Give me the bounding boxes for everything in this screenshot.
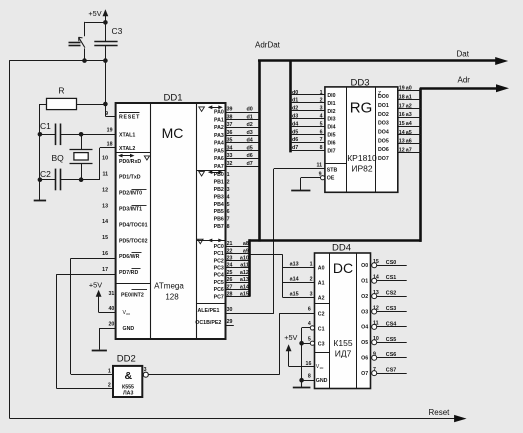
crystal BQ [52, 134, 93, 179]
+5V supply at DD4 Vcc [284, 333, 314, 366]
wire bottom reset rail (horizontal) [10, 418, 455, 420]
DD1 pin PA0 (pin 39, d0) [214, 107, 258, 116]
svg-text:PC5: PC5 [214, 280, 224, 286]
svg-text:PA7: PA7 [214, 164, 224, 170]
DD1 pin PD1 label [102, 172, 140, 181]
svg-text:d2: d2 [247, 122, 253, 128]
wire left reset rail (vertical) [9, 60, 11, 419]
svg-text:PD2/INT0: PD2/INT0 [119, 191, 142, 197]
svg-text:d0: d0 [292, 90, 298, 96]
svg-text:A0: A0 [318, 266, 325, 272]
svg-text:11: 11 [316, 162, 322, 168]
DD1 PB section marks [199, 170, 223, 176]
DD1 pin RESET label [105, 111, 140, 120]
svg-text:DI2: DI2 [327, 109, 335, 115]
DD4 pin O6 (pin 9, CS6) with bubble [361, 352, 407, 362]
+5V supply symbol [88, 9, 108, 23]
DD1 pin PA4 (pin 35, d4) [214, 138, 258, 147]
svg-text:13: 13 [102, 203, 108, 209]
svg-text:PB4: PB4 [214, 202, 224, 208]
DD1 pin PA7 (pin 32, d7) [214, 161, 258, 170]
node C1/BQ/XTAL1 [79, 132, 84, 137]
DD3 pin DI6 (pin 7, d6) [291, 137, 336, 146]
svg-text:PD1/TxD: PD1/TxD [119, 175, 141, 181]
svg-text:10: 10 [373, 336, 379, 342]
svg-text:21: 21 [227, 241, 233, 247]
DD1 pin PC4 (pin 25, a12) [214, 270, 250, 279]
svg-text:PD4/TOC01: PD4/TOC01 [119, 222, 148, 228]
DD1 pin PC7 (pin 28, a15) [214, 292, 250, 301]
DD1 pin Vcc label [108, 306, 130, 316]
DD4 pin C3 (pin 5) with bubble [302, 336, 325, 347]
svg-text:PC2: PC2 [214, 258, 224, 264]
svg-text:6: 6 [320, 129, 323, 135]
wire PD7/RD to DD2 input 2 [56, 274, 115, 388]
svg-text:16: 16 [306, 361, 312, 367]
svg-text:4: 4 [320, 114, 323, 120]
DD1 pin PC0 (pin 21, a8) [214, 241, 250, 250]
DD4 pin O2 (pin 13, CS2) with bubble [361, 290, 407, 300]
DD3 pin DI5 (pin 6, d5) [291, 129, 336, 138]
DD1 pin PA3 (pin 36, d3) [214, 130, 258, 139]
wire DD1 GND to ground [99, 328, 115, 349]
svg-text:a7: a7 [406, 147, 412, 153]
svg-text:d6: d6 [247, 153, 253, 159]
DD3 pin DI1 (pin 2, d1) [291, 98, 336, 107]
+5V supply at DD1 Vcc [89, 280, 116, 312]
svg-text:OE: OE [327, 176, 335, 182]
svg-text:A1: A1 [318, 281, 325, 287]
svg-text:d0: d0 [247, 107, 253, 113]
svg-text:34: 34 [227, 145, 233, 151]
wire +5V node down to resistor node [105, 61, 107, 104]
DD2 input pin 1 [71, 368, 113, 374]
svg-text:CS1: CS1 [386, 275, 397, 281]
capacitor C2 [40, 169, 81, 191]
svg-text:a11: a11 [240, 263, 249, 269]
DD3 pin DI7 (pin 8, d7) [291, 145, 336, 154]
DD4 pin O1 (pin 14, CS1) with bubble [361, 275, 407, 285]
svg-text:31: 31 [108, 291, 114, 297]
svg-text:13: 13 [399, 139, 405, 145]
svg-text:d4: d4 [292, 121, 298, 127]
svg-text:19: 19 [107, 128, 113, 134]
svg-text:24: 24 [227, 263, 233, 269]
svg-text:cc: cc [320, 366, 324, 370]
svg-text:d4: d4 [247, 138, 253, 144]
svg-text:PB2: PB2 [214, 187, 224, 193]
DD1 pin XTAL1 label [107, 128, 136, 139]
DD1 pin PC5 (pin 26, a13) [214, 277, 250, 286]
DD4 pin Vcc label [306, 361, 324, 370]
svg-text:9: 9 [105, 111, 108, 117]
bus AdrDat (AD0-AD7 vertical) [255, 41, 281, 242]
svg-text:11: 11 [102, 172, 108, 178]
DD3 pin DO0 (pin 19, a0) [378, 86, 421, 101]
svg-text:1: 1 [310, 262, 313, 268]
DD4 pin GND label [302, 373, 328, 384]
svg-text:DD2: DD2 [117, 353, 136, 364]
svg-text:DI7: DI7 [327, 148, 335, 154]
svg-text:35: 35 [227, 138, 233, 144]
svg-text:3: 3 [310, 292, 313, 298]
svg-text:2: 2 [310, 277, 313, 283]
wire left C-rail (vertical) [39, 104, 41, 200]
svg-text:PD3/INT1: PD3/INT1 [119, 207, 142, 213]
svg-text:d3: d3 [247, 130, 253, 136]
svg-text:1: 1 [108, 368, 111, 374]
DD3 pin DI4 (pin 5, d4) [291, 121, 336, 130]
svg-text:К555: К555 [122, 384, 134, 390]
svg-text:d2: d2 [292, 106, 298, 112]
DD3 pin STB [316, 162, 337, 173]
svg-text:DI4: DI4 [327, 125, 335, 131]
svg-text:Reset: Reset [429, 408, 451, 417]
svg-text:14: 14 [102, 219, 108, 225]
svg-text:a13: a13 [290, 262, 299, 268]
ground (DD1 GND) [99, 348, 101, 351]
svg-text:DD4: DD4 [332, 242, 351, 253]
svg-text:PB0: PB0 [214, 172, 224, 178]
svg-text:PB6: PB6 [214, 217, 224, 223]
svg-text:14: 14 [373, 275, 379, 281]
svg-text:CS2: CS2 [386, 291, 397, 297]
svg-text:PB7: PB7 [214, 224, 224, 230]
svg-text:PC1: PC1 [214, 251, 224, 257]
svg-text:13: 13 [373, 290, 379, 296]
wire a13-a15 feeder from address bus [250, 255, 283, 298]
node C2 left [38, 177, 43, 182]
svg-text:20: 20 [108, 322, 114, 328]
svg-text:22: 22 [227, 248, 233, 254]
svg-text:A2: A2 [318, 296, 325, 302]
svg-text:7: 7 [227, 217, 230, 223]
svg-text:ALE/PE1: ALE/PE1 [198, 308, 220, 314]
wire to XTAL1 pin 19 [81, 134, 116, 136]
svg-text:d1: d1 [292, 98, 298, 104]
svg-text:30: 30 [227, 307, 233, 313]
svg-text:DO2: DO2 [378, 112, 389, 118]
DD4 pin O4 (pin 11, CS4) with bubble [361, 321, 407, 331]
svg-text:DI5: DI5 [327, 133, 335, 139]
node +5V/C3 top [103, 20, 108, 25]
wire PD6/WR to DD2 input 1 [71, 258, 116, 374]
DD1 PC section marks [198, 239, 223, 244]
DD4 pin O5 (pin 10, CS5) with bubble [361, 336, 407, 346]
svg-text:a14: a14 [290, 277, 299, 283]
DD2 output pin 3 with bubble, wire to DD4 C2 [143, 367, 279, 377]
svg-text:PA6: PA6 [214, 156, 224, 162]
svg-text:PA4: PA4 [214, 141, 224, 147]
DD3 pin DO7 (pin 12, a7) [378, 147, 421, 162]
DD3 pin DI2 (pin 3, d2) [291, 106, 336, 115]
svg-text:d7: d7 [292, 145, 298, 151]
DD3 pin DO6 (pin 13, a6) [378, 139, 421, 154]
DD3 pin DI0 (pin 1, d0) [291, 90, 336, 99]
DD4 pin O0 (pin 15, CS0) with bubble [361, 259, 407, 269]
svg-text:25: 25 [227, 270, 233, 276]
DD3 pin DO5 (pin 14, a5) [378, 130, 421, 145]
svg-text:17: 17 [102, 267, 108, 273]
svg-text:PB1: PB1 [214, 180, 224, 186]
DD3 pin DI3 (pin 4, d3) [291, 114, 336, 123]
DD1 PD0 bidirectional mark [118, 154, 150, 160]
DD3 pin DO4 (pin 15, a4) [378, 121, 421, 136]
DD1 pin PA1 (pin 38, d1) [214, 114, 258, 123]
ground (DD3 OE) [291, 190, 310, 192]
svg-text:DI3: DI3 [327, 117, 335, 123]
svg-text:DC: DC [333, 260, 353, 276]
svg-text:26: 26 [227, 277, 233, 283]
svg-text:PB3: PB3 [214, 194, 224, 200]
svg-text:К155: К155 [333, 338, 352, 348]
DD1 pin PA2 (pin 37, d2) [214, 122, 258, 131]
svg-text:a15: a15 [240, 292, 249, 298]
DD2 input pin 2 [56, 383, 113, 389]
svg-text:15: 15 [373, 259, 379, 265]
capacitor C3 [94, 22, 122, 60]
svg-text:DO0: DO0 [378, 94, 389, 100]
svg-text:DD1: DD1 [164, 93, 183, 104]
wire C1/C3 to ground rail [301, 328, 303, 380]
svg-text:1: 1 [320, 90, 323, 96]
svg-text:PC3: PC3 [214, 266, 224, 272]
DD1 pin PB0 (pin 1) [214, 172, 230, 178]
svg-text:O0: O0 [361, 263, 368, 269]
svg-text:3: 3 [144, 367, 147, 373]
svg-text:40: 40 [108, 306, 114, 312]
resistor R [40, 86, 106, 110]
DD4 pin O7 (pin 7, CS7) with bubble [361, 367, 407, 377]
bus A8-A15 (PC vertical) [248, 239, 251, 296]
svg-text:C1: C1 [318, 326, 325, 332]
svg-text:2: 2 [320, 98, 323, 104]
DD1 pin XTAL2 label [107, 141, 136, 152]
svg-text:C3: C3 [318, 341, 325, 347]
svg-text:a12: a12 [240, 270, 249, 276]
svg-text:36: 36 [227, 130, 233, 136]
node C3/ground rail [299, 341, 304, 346]
svg-text:DI6: DI6 [327, 140, 335, 146]
wire top rail to left reset rail [10, 60, 106, 62]
svg-text:a1: a1 [406, 94, 412, 100]
svg-text:XTAL1: XTAL1 [119, 132, 135, 138]
wire node to RESET pin 9 [105, 104, 115, 117]
svg-text:O5: O5 [361, 340, 368, 346]
capacitor C1 [40, 121, 81, 145]
DD1 pin PB3 (pin 4) [214, 194, 230, 200]
DD3 pin DO2 (pin 17, a2) [378, 103, 421, 118]
DD1 pin PA6 (pin 33, d6) [214, 153, 258, 162]
DD1 pin GND label [108, 322, 134, 332]
svg-text:29: 29 [227, 319, 233, 325]
svg-text:C3: C3 [112, 26, 123, 36]
svg-text:+5V: +5V [89, 280, 102, 289]
svg-text:15: 15 [102, 235, 108, 241]
svg-text:PE0/INT2: PE0/INT2 [121, 293, 144, 299]
DD3 pin DO1 (pin 18, a1) [378, 94, 421, 109]
node C2/BQ bottom [79, 177, 84, 182]
svg-text:11: 11 [373, 321, 379, 327]
DD4 pin C1 (pin 4) with bubble [302, 321, 325, 333]
svg-text:cc: cc [126, 312, 130, 316]
svg-text:O6: O6 [361, 356, 368, 362]
svg-text:d7: d7 [247, 161, 253, 167]
svg-text:a10: a10 [240, 256, 249, 262]
svg-text:DO4: DO4 [378, 129, 389, 135]
svg-text:d5: d5 [292, 129, 298, 135]
svg-text:GND: GND [316, 378, 328, 384]
svg-text:ИР82: ИР82 [351, 164, 373, 174]
svg-text:O2: O2 [361, 294, 368, 300]
svg-text:PA3: PA3 [214, 133, 224, 139]
wire BQ bottom to XTAL2 pin 18 [81, 148, 116, 180]
svg-text:MC: MC [162, 125, 184, 141]
svg-text:32: 32 [227, 161, 233, 167]
svg-text:16: 16 [399, 112, 405, 118]
svg-text:28: 28 [227, 292, 233, 298]
svg-text:CS7: CS7 [386, 368, 397, 374]
svg-text:PA2: PA2 [214, 125, 224, 131]
svg-text:PA5: PA5 [214, 148, 224, 154]
DD1 pin PB4 (pin 5) [214, 202, 230, 208]
register DD3 KR1810IR82 body [325, 77, 398, 192]
DD1 pin PB7 (pin 8) [214, 224, 230, 230]
svg-text:DI1: DI1 [327, 101, 335, 107]
svg-text:2: 2 [227, 180, 230, 186]
svg-text:PD7/RD: PD7/RD [119, 270, 138, 276]
microcontroller DD1 ATmega128 body [116, 93, 226, 340]
svg-text:DO6: DO6 [378, 147, 389, 153]
svg-text:PC4: PC4 [214, 273, 224, 279]
svg-text:+5V: +5V [284, 333, 297, 342]
svg-text:18: 18 [399, 94, 405, 100]
svg-text:PC7: PC7 [214, 294, 224, 300]
svg-text:O3: O3 [361, 309, 368, 315]
bus address horizontal (to Adr) [249, 239, 422, 242]
svg-text:PB5: PB5 [214, 209, 224, 215]
svg-text:17: 17 [399, 103, 405, 109]
svg-text:a2: a2 [406, 103, 412, 109]
decoder DD4 K155ID7 body [315, 242, 371, 388]
ground (DD4) [301, 380, 303, 387]
svg-text:a15: a15 [290, 292, 299, 298]
svg-text:DO5: DO5 [378, 138, 389, 144]
DD1 pin PA5 (pin 34, d5) [214, 145, 258, 154]
DD1 pin PD7 label [102, 267, 140, 276]
svg-text:128: 128 [165, 293, 179, 302]
svg-text:7: 7 [373, 367, 376, 373]
svg-text:16: 16 [102, 251, 108, 257]
svg-text:ЛА3: ЛА3 [123, 391, 133, 397]
svg-text:CS5: CS5 [386, 337, 397, 343]
svg-text:XTAL2: XTAL2 [119, 146, 135, 152]
DD1 pin ALE/PE1 [198, 307, 274, 314]
DD1 pin PD3 label [102, 203, 146, 212]
bus Adr line with arrow [420, 76, 509, 93]
svg-text:9: 9 [373, 352, 376, 358]
svg-text:a5: a5 [406, 130, 412, 136]
svg-text:8: 8 [320, 145, 323, 151]
svg-text:a8: a8 [243, 241, 249, 247]
svg-text:19: 19 [399, 86, 405, 92]
svg-text:5: 5 [227, 202, 230, 208]
DD1 pin PB6 (pin 7) [214, 217, 230, 223]
svg-text:d6: d6 [292, 137, 298, 143]
svg-text:15: 15 [399, 121, 405, 127]
svg-text:AdrDat: AdrDat [255, 41, 281, 50]
svg-text:d1: d1 [247, 114, 253, 120]
svg-text:3: 3 [227, 187, 230, 193]
svg-text:+5V: +5V [88, 9, 101, 18]
svg-text:&: & [125, 370, 133, 382]
DD4 pin A1 (pin 2, a14) [283, 277, 325, 287]
svg-text:1: 1 [227, 172, 230, 178]
svg-text:12: 12 [102, 187, 108, 193]
svg-text:8: 8 [227, 224, 230, 230]
svg-text:CS6: CS6 [386, 352, 397, 358]
svg-text:6: 6 [308, 307, 311, 313]
NAND gate DD2 K555LA3 [113, 353, 142, 397]
DD1 pin PC6 (pin 27, a14) [214, 284, 250, 293]
svg-text:BQ: BQ [52, 153, 65, 163]
DD1 pin PD6 label [102, 251, 141, 260]
bus Dat line with arrow [258, 49, 508, 65]
svg-text:3: 3 [320, 106, 323, 112]
node C4 bottom [82, 58, 87, 63]
wire +5V node to left branch top [85, 22, 106, 36]
DD3 pin OE with bubble [301, 172, 335, 191]
DD3 pin DO3 (pin 16, a3) [378, 112, 421, 127]
svg-text:37: 37 [227, 122, 233, 128]
svg-text:PA0: PA0 [214, 110, 224, 116]
svg-text:C2: C2 [40, 169, 51, 179]
DD1 pin PC1 (pin 22, a9) [214, 248, 250, 257]
svg-text:PD5/TOC02: PD5/TOC02 [119, 238, 148, 244]
svg-text:C2: C2 [318, 312, 325, 318]
node resistor / RESET [103, 102, 108, 107]
svg-text:33: 33 [227, 153, 233, 159]
svg-text:12: 12 [373, 305, 379, 311]
DD1 pin PB5 (pin 6) [214, 209, 230, 215]
svg-text:ИД7: ИД7 [335, 349, 352, 359]
svg-text:a0: a0 [406, 86, 412, 92]
DD1 pin PC3 (pin 24, a11) [214, 263, 250, 272]
DD1 pin PD4 label [102, 219, 147, 228]
svg-text:a14: a14 [240, 284, 249, 290]
svg-text:7: 7 [320, 137, 323, 143]
svg-text:4: 4 [308, 321, 311, 327]
DD4 pin O3 (pin 12, CS3) with bubble [361, 305, 407, 315]
node C3 bottom [103, 58, 108, 63]
svg-text:C1: C1 [40, 121, 51, 131]
DD1 PA section marks [199, 105, 223, 111]
DD1 pin PE0/INT2 label [108, 290, 147, 299]
DD4 pin C2 (pin 6) from DD2 [279, 307, 324, 375]
svg-text:PA1: PA1 [214, 117, 224, 123]
svg-text:Dat: Dat [457, 49, 470, 58]
svg-text:38: 38 [227, 114, 233, 120]
svg-text:12: 12 [399, 147, 405, 153]
svg-text:PD0/RxD: PD0/RxD [119, 159, 141, 165]
svg-text:23: 23 [227, 256, 233, 262]
DD1 pin PC2 (pin 23, a10) [214, 256, 250, 265]
svg-text:PC0: PC0 [214, 244, 224, 250]
bus A0-A15 vertical (right) [419, 88, 422, 242]
svg-text:DO1: DO1 [378, 103, 389, 109]
svg-text:39: 39 [227, 107, 233, 113]
svg-text:RG: RG [350, 100, 373, 117]
